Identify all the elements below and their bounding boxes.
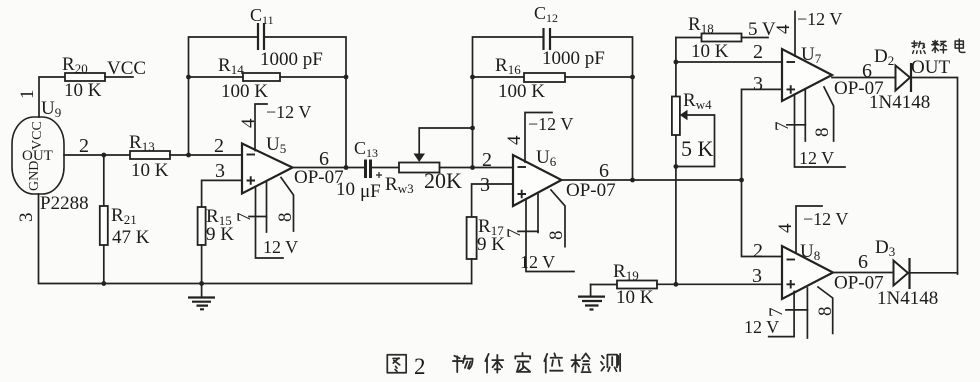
U8 pin7 wire to 12V <box>744 288 807 338</box>
feedback box U5: left vertical wire <box>189 37 257 155</box>
svg-text:7: 7 <box>772 122 793 132</box>
divider vertical R18-Rw4 <box>675 38 677 285</box>
wire U5 output to C13 <box>293 167 364 169</box>
svg-text:4: 4 <box>775 223 796 233</box>
svg-text:U9: U9 <box>41 98 61 120</box>
svg-text:C13: C13 <box>354 138 378 160</box>
svg-text:8: 8 <box>812 128 833 138</box>
junction R16 right <box>630 75 635 80</box>
svg-text:10 K: 10 K <box>691 41 729 62</box>
U7 pin7 wire to 12V <box>772 90 845 168</box>
svg-text:R20: R20 <box>62 54 88 76</box>
svg-text:U6: U6 <box>536 147 557 169</box>
ground at R19 <box>578 285 605 310</box>
wire C12 to right vertical <box>551 37 632 180</box>
resistor R20 <box>62 54 105 101</box>
sensor U9 P2288 body <box>12 98 89 214</box>
svg-text:10 K: 10 K <box>131 160 169 181</box>
op-amp U5 <box>242 134 344 194</box>
svg-text:D3: D3 <box>875 237 895 259</box>
wire R13 to U5 pin2 <box>170 154 242 156</box>
svg-text:U8: U8 <box>800 241 820 263</box>
svg-text:μF: μF <box>360 181 381 202</box>
svg-text:2: 2 <box>753 41 763 63</box>
U6 pin3 wire and R17 <box>467 184 513 284</box>
svg-text:VCC: VCC <box>30 121 45 150</box>
U5 pin4 supply -12V <box>238 102 311 151</box>
svg-text:6: 6 <box>858 251 868 273</box>
U6 pin4 supply -12V <box>504 113 573 163</box>
svg-text:1N4148: 1N4148 <box>869 92 930 113</box>
svg-text:D2: D2 <box>874 46 894 68</box>
junction R14 right <box>344 75 349 80</box>
svg-text:OUT: OUT <box>911 57 950 78</box>
ground under R15 <box>188 298 215 310</box>
svg-text:12 V: 12 V <box>744 317 779 337</box>
wire U9 pin2 to R13 <box>64 154 130 156</box>
op-amp U8 <box>782 241 884 299</box>
svg-text:U7: U7 <box>801 44 822 66</box>
junction feedback left <box>186 153 191 158</box>
U6 pin7 wire to 12V <box>504 193 574 272</box>
svg-text:10 K: 10 K <box>616 287 654 308</box>
svg-text:8: 8 <box>546 231 567 241</box>
svg-text:12 V: 12 V <box>263 237 298 257</box>
feedback box U6: left vertical wire <box>473 37 543 168</box>
potentiometer Rw3 <box>385 163 462 197</box>
svg-text:10 K: 10 K <box>64 80 102 101</box>
svg-text:−12 V: −12 V <box>803 209 848 229</box>
svg-text:3: 3 <box>752 265 762 287</box>
label pyroelectric 热释电 <box>912 39 965 53</box>
svg-text:2: 2 <box>753 240 763 262</box>
svg-text:R19: R19 <box>613 261 639 283</box>
svg-text:8: 8 <box>275 213 296 223</box>
junction R21 top <box>101 153 106 158</box>
svg-text:12 V: 12 V <box>520 252 555 272</box>
svg-text:3: 3 <box>480 174 490 196</box>
svg-text:GND: GND <box>27 161 42 191</box>
wire D2 to OUT rail <box>912 78 958 275</box>
svg-text:12 V: 12 V <box>799 148 834 168</box>
svg-text:4: 4 <box>773 24 794 34</box>
junction U6 input node <box>470 165 475 170</box>
U6 pin8 stub <box>546 190 567 247</box>
svg-text:1000 pF: 1000 pF <box>260 49 323 70</box>
wire pin1 of U9 up to R20 <box>39 77 65 117</box>
wire C11 to right vertical <box>265 37 346 168</box>
svg-text:100 K: 100 K <box>498 81 545 102</box>
svg-text:C12: C12 <box>534 3 558 25</box>
wire main node to U7 pin3 and U8 pin2 <box>742 89 783 256</box>
op-amp U6 <box>513 147 616 206</box>
wire U7 pin2 <box>676 61 782 63</box>
svg-text:1000 pF: 1000 pF <box>542 48 605 69</box>
junction wiper elbow <box>470 126 475 131</box>
wire U9 pin3 down and bottom rail <box>39 194 472 284</box>
svg-text:−12 V: −12 V <box>528 114 573 134</box>
junction R21 bottom <box>101 281 106 286</box>
svg-text:VCC: VCC <box>107 58 146 79</box>
wire D3 to OUT rail <box>911 272 958 274</box>
op-amp U7 <box>782 44 884 101</box>
svg-text:7: 7 <box>234 213 255 223</box>
svg-text:6: 6 <box>599 160 609 182</box>
capacitor C13 10uF <box>336 138 382 202</box>
svg-text:3: 3 <box>215 160 225 182</box>
svg-text:4: 4 <box>238 118 259 128</box>
svg-text:R14: R14 <box>218 55 244 77</box>
resistor R16 <box>473 55 633 102</box>
wire Rw3 to U6 pin2 <box>440 167 514 169</box>
resistor R13 <box>129 132 170 181</box>
svg-text:100 K: 100 K <box>221 81 268 102</box>
U7 pin8 stub <box>812 87 834 141</box>
svg-text:Rw4: Rw4 <box>683 90 712 112</box>
svg-text:U5: U5 <box>266 134 286 156</box>
svg-text:OP-07: OP-07 <box>566 180 616 201</box>
svg-text:7: 7 <box>766 308 787 318</box>
svg-text:R16: R16 <box>495 55 521 77</box>
svg-text:−12 V: −12 V <box>797 9 842 29</box>
resistor R18 <box>676 14 768 62</box>
junction feedback to output <box>344 165 349 170</box>
svg-text:1N4148: 1N4148 <box>877 288 938 309</box>
wire R20 to VCC <box>105 76 133 78</box>
svg-text:−12 V: −12 V <box>266 102 311 122</box>
svg-text:5 K: 5 K <box>681 136 714 161</box>
svg-text:2: 2 <box>414 354 426 379</box>
svg-text:6: 6 <box>862 60 872 82</box>
svg-text:2: 2 <box>214 135 224 157</box>
junction R16 left <box>470 75 475 80</box>
svg-text:R18: R18 <box>688 14 714 36</box>
diode D2 1N4148 <box>869 46 930 113</box>
svg-text:47 K: 47 K <box>112 227 150 248</box>
U8 pin4 supply -12V <box>775 206 848 253</box>
junction U7 pin2 tap <box>674 60 679 65</box>
svg-text:C11: C11 <box>250 5 274 27</box>
svg-text:3: 3 <box>753 73 763 95</box>
resistor R19 <box>591 261 657 308</box>
junction feedback2 to output <box>630 178 635 183</box>
svg-text:Rw3: Rw3 <box>385 174 414 196</box>
svg-text:R21: R21 <box>111 205 137 227</box>
capacitor C12 <box>534 3 605 69</box>
junction ground rail <box>199 281 204 286</box>
caption 物体定位检测 <box>453 353 620 373</box>
svg-text:9 K: 9 K <box>477 234 505 255</box>
caption 图 2 <box>387 354 425 379</box>
svg-text:9 K: 9 K <box>206 224 234 245</box>
Rw4 wiper arrow loop <box>676 110 715 167</box>
junction main node <box>739 178 744 183</box>
resistor R21 <box>100 155 150 284</box>
resistor R15 <box>198 206 235 245</box>
svg-text:2: 2 <box>79 135 89 157</box>
U5 pin3 wire to R15 <box>202 180 242 207</box>
resistor R14 <box>189 55 347 102</box>
svg-text:5 V: 5 V <box>748 19 776 40</box>
svg-text:10: 10 <box>336 179 355 200</box>
U7 pin4 supply -12V <box>773 9 842 56</box>
junction R14 left <box>186 75 191 80</box>
svg-text:20K: 20K <box>424 168 462 193</box>
svg-text:1: 1 <box>17 90 38 100</box>
diode D3 1N4148 <box>875 237 938 309</box>
wire R15 to ground <box>201 245 203 298</box>
svg-text:8: 8 <box>815 307 836 317</box>
svg-text:3: 3 <box>16 213 37 223</box>
U8 pin8 stub <box>815 287 836 333</box>
svg-text:P2288: P2288 <box>40 193 89 214</box>
U5 pin7 wire to 12V <box>234 182 298 258</box>
wire U6 output to comparator node <box>562 179 742 181</box>
svg-text:R13: R13 <box>129 132 155 154</box>
U5 pin8 stub <box>275 178 296 232</box>
potentiometer Rw4 <box>672 90 714 161</box>
wire C13 to Rw3 <box>373 167 400 169</box>
svg-text:2: 2 <box>482 149 492 171</box>
wire U7 output to D2 <box>832 77 896 79</box>
wire R19 to U8 pin3 <box>657 283 782 285</box>
svg-text:7: 7 <box>504 229 525 239</box>
wire U8 output to D3 <box>833 272 894 274</box>
Rw3 wiper arrow to U6 input node <box>414 128 473 162</box>
junction R19 node <box>674 282 679 287</box>
capacitor C11 <box>250 5 323 70</box>
svg-text:4: 4 <box>504 135 525 145</box>
junction wiper4 <box>674 164 679 169</box>
